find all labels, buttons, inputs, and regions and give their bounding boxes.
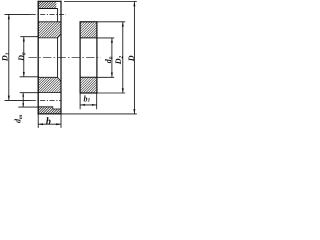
cover right face outline — [60, 1, 62, 115]
section hatch, ring upper square — [80, 22, 97, 38]
cover top edge outline — [38, 0, 62, 2]
svg-text:b: b — [46, 116, 51, 127]
extension line b1 left — [79, 94, 81, 110]
web face edge in bore region — [57, 38, 59, 77]
arrow D top — [133, 2, 135, 7]
dimension line D1 — [8, 14, 10, 100]
extension line D0 bottom — [20, 76, 39, 78]
arrow d0 top — [111, 38, 113, 43]
arrow D1 bottom — [8, 96, 10, 101]
arrow D1 top — [8, 14, 10, 19]
arrow D0 bottom — [23, 72, 25, 77]
dimension line dm — [22, 93, 24, 107]
extension line dm top — [20, 92, 39, 94]
label dm — [13, 114, 23, 123]
arrow D2 top — [122, 22, 124, 27]
dimension line D2 — [122, 22, 124, 93]
arrow dm top — [22, 93, 24, 97]
section hatch, ring lower square — [80, 77, 97, 93]
arrow dm bottom — [22, 103, 24, 107]
extension line D top — [64, 1, 137, 3]
label D — [127, 55, 136, 62]
extension line D0 top — [20, 36, 38, 38]
arrow b right — [56, 123, 61, 125]
dimension line b — [38, 123, 61, 125]
section hatch, cover rim band bottom (stepped) — [38, 107, 61, 114]
extension line b1 right — [96, 94, 98, 110]
dimension line b1 — [80, 104, 97, 106]
upper groove center line — [31, 13, 66, 15]
extension line dm bottom — [18, 106, 38, 108]
extension line D2 top — [97, 21, 125, 23]
extension line d0 top — [97, 37, 114, 39]
extension line D2 bottom — [97, 92, 125, 94]
main axis center line — [29, 57, 101, 59]
dimension line d0 — [111, 38, 113, 77]
arrow b1 right — [92, 104, 97, 106]
arrow d0 bottom — [111, 73, 113, 78]
label D0 — [17, 52, 28, 62]
arrow D bottom — [133, 109, 135, 114]
extension line b right — [60, 114, 62, 128]
svg-text:D: D — [127, 55, 136, 62]
dimension line D0 — [23, 37, 25, 77]
background — [0, 0, 141, 131]
section hatch, cover rim band top — [38, 1, 56, 8]
upper groove center line extension — [5, 13, 31, 15]
arrow D2 bottom — [122, 88, 124, 93]
lower groove center line extension — [5, 99, 31, 101]
ring bore upper edge — [80, 37, 97, 39]
section hatch, cover upper hub block with chamfer — [38, 22, 61, 38]
ring outline — [80, 22, 97, 93]
cover left face outline — [37, 1, 39, 115]
groove bottom edge upper segment — [57, 9, 59, 22]
section hatch, cover lower hub block with chamfer — [38, 77, 61, 92]
extension line b left — [37, 114, 39, 128]
arrow b1 left — [80, 104, 85, 106]
label d0 — [104, 56, 114, 63]
extension line D bottom — [62, 113, 137, 115]
arrow D0 top — [23, 37, 25, 42]
dimension line D — [133, 2, 135, 114]
cover bottom edge outline — [38, 113, 62, 115]
lower groove center line — [31, 99, 62, 101]
extension line d0 bottom — [97, 76, 114, 78]
arrow b left — [38, 123, 43, 125]
rim band top inner edge — [38, 8, 57, 10]
label D1 — [1, 52, 12, 62]
label D2 — [114, 55, 124, 65]
ring bore lower edge — [80, 76, 97, 78]
